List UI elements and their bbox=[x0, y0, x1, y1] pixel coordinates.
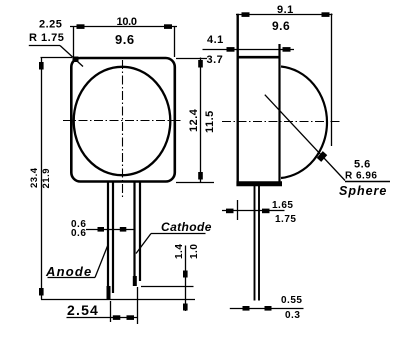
leader line for Anode label bbox=[48, 246, 108, 278]
dimension 0.6/0.6, lead width, front view bbox=[86, 227, 134, 232]
svg-text:4.1: 4.1 bbox=[207, 34, 224, 46]
svg-text:1.4: 1.4 bbox=[174, 244, 185, 259]
svg-text:Anode: Anode bbox=[45, 264, 92, 279]
svg-text:0.55: 0.55 bbox=[281, 295, 302, 306]
LED dome circle, front view bbox=[74, 67, 171, 175]
svg-text:12.4: 12.4 bbox=[188, 108, 200, 132]
svg-text:5.6: 5.6 bbox=[354, 159, 371, 171]
svg-text:9.6: 9.6 bbox=[272, 19, 290, 33]
svg-text:Cathode: Cathode bbox=[161, 220, 212, 234]
anode lead end level line bbox=[41, 299, 195, 301]
dimension 4.1/3.7, body depth without dome, side view bbox=[203, 47, 295, 52]
dimension 23.4/21.9, overall height, front view bbox=[39, 58, 72, 300]
vertical centerline, front view bbox=[122, 60, 124, 198]
svg-text:R 6.96: R 6.96 bbox=[345, 171, 377, 182]
svg-text:1.65: 1.65 bbox=[272, 200, 293, 211]
LED package body outline, front view bbox=[71, 58, 175, 182]
dimension 9.1/9.6, depth, side view top bbox=[236, 12, 333, 146]
horizontal centerline, side view bbox=[222, 121, 341, 123]
leader line for Cathode label bbox=[136, 234, 206, 254]
svg-text:10.0: 10.0 bbox=[117, 16, 137, 28]
svg-text:11.5: 11.5 bbox=[204, 110, 216, 133]
dimension 12.4/11.5, body height, front view right bbox=[176, 58, 214, 183]
cathode lead (right, short), front view bbox=[133, 182, 140, 286]
anode lead (left, long), front view bbox=[107, 182, 114, 299]
cathode lead end level line bbox=[141, 286, 194, 288]
svg-text:3.7: 3.7 bbox=[207, 54, 224, 66]
svg-text:9.6: 9.6 bbox=[115, 32, 135, 47]
svg-text:2.54: 2.54 bbox=[67, 302, 99, 318]
svg-text:0.6: 0.6 bbox=[71, 228, 86, 239]
dimension 10.0/9.6, body width, front view bbox=[70, 24, 177, 57]
svg-text:R 1.75: R 1.75 bbox=[29, 32, 64, 44]
dimension 1.65/1.75, lead offset from front face, side view bbox=[222, 200, 285, 220]
body top edge, side view bbox=[237, 56, 281, 59]
lead, side view bbox=[255, 186, 260, 301]
dimension 2.54, lead spacing bbox=[67, 287, 138, 324]
leader for corner radius R 1.75 bbox=[29, 46, 83, 67]
svg-text:9.1: 9.1 bbox=[277, 4, 294, 16]
dimension 1.4/1.0, lead length difference bbox=[183, 246, 188, 312]
body bottom flange bar, side view bbox=[236, 181, 282, 186]
svg-text:2.25: 2.25 bbox=[39, 19, 62, 31]
svg-text:23.4: 23.4 bbox=[29, 167, 40, 188]
svg-text:21.9: 21.9 bbox=[41, 168, 52, 189]
svg-text:0.3: 0.3 bbox=[285, 310, 300, 321]
svg-text:1.0: 1.0 bbox=[189, 244, 200, 259]
dimension 0.55/0.3, lead thickness, side view bottom bbox=[230, 306, 304, 311]
svg-text:Sphere: Sphere bbox=[339, 184, 387, 198]
sphere radius leader line bbox=[265, 95, 390, 182]
dome base line, side view bbox=[278, 44, 280, 186]
svg-text:1.75: 1.75 bbox=[275, 214, 296, 225]
dome hemisphere arc, side view bbox=[281, 67, 327, 179]
body front face line, side view bbox=[236, 14, 238, 186]
horizontal centerline, front view bbox=[63, 120, 181, 122]
